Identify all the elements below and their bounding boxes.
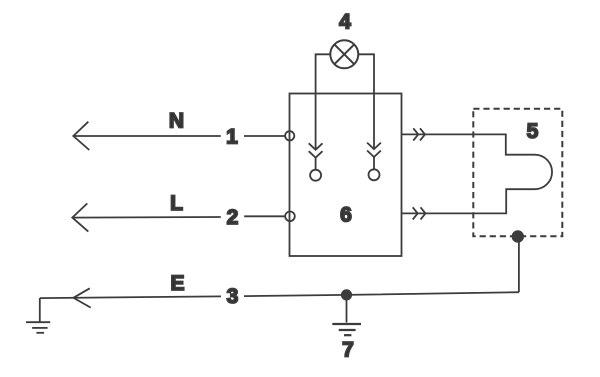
svg-text:2: 2 xyxy=(227,206,239,229)
socket circle left xyxy=(310,170,321,181)
junction dot on wire E xyxy=(342,290,351,299)
svg-text:N: N xyxy=(169,110,184,133)
wire E (line 3) xyxy=(40,237,519,322)
lamp lead left xyxy=(316,54,331,149)
control box U6 xyxy=(290,94,402,257)
svg-text:E: E xyxy=(170,272,184,295)
ground (left, protective earth) xyxy=(26,322,50,333)
chevrons top wire xyxy=(413,128,425,140)
svg-text:L: L xyxy=(170,192,183,215)
svg-text:6: 6 xyxy=(340,204,352,227)
socket circle right xyxy=(369,169,380,180)
terminal circle 2 on box 6 xyxy=(285,212,295,222)
lamp 4 (indicator) xyxy=(330,40,358,68)
arrowhead wire E xyxy=(73,288,90,307)
svg-text:3: 3 xyxy=(227,285,239,308)
svg-text:7: 7 xyxy=(342,338,354,361)
ground 7 xyxy=(332,295,361,335)
svg-text:4: 4 xyxy=(339,11,351,34)
junction dot on box 5 bottom edge xyxy=(513,231,524,242)
arrowhead wire L xyxy=(72,203,88,231)
svg-text:5: 5 xyxy=(527,120,539,143)
terminal circle 1 on box 6 xyxy=(285,131,294,140)
heating element (in box 5) with feed wires xyxy=(402,134,553,213)
connector plug left (in box 6) xyxy=(309,143,323,169)
dashed enclosure box 5 xyxy=(473,109,562,236)
wire N (line 1) xyxy=(73,135,285,137)
arrowhead wire N xyxy=(73,122,89,150)
connector plug right (in box 6) xyxy=(367,143,381,170)
svg-text:1: 1 xyxy=(226,125,238,148)
lamp lead right xyxy=(358,54,374,149)
wire L (line 2) xyxy=(72,216,285,217)
chevrons bottom wire xyxy=(413,207,426,219)
